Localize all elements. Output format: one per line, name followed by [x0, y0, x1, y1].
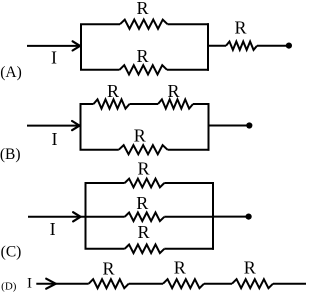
wire: lead before arrowhead (D) [36, 283, 88, 285]
resistor R1 top branch (B) [94, 99, 130, 108]
wire: top-left segment (C) [85, 182, 125, 184]
node terminal dot (A) [286, 43, 292, 49]
svg-text:R: R [134, 125, 146, 145]
resistor R2 series (D) [163, 279, 204, 288]
wire: right vertical of box (B) [208, 103, 210, 151]
svg-text:R: R [136, 0, 148, 18]
wire: top-right segment (A) [168, 23, 210, 25]
wire: input lead (A) [27, 45, 80, 47]
wire: bottom-left segment (A) [80, 69, 120, 71]
wire: bottom-left segment (C) [85, 248, 125, 250]
resistor R top branch (C) [125, 179, 165, 188]
svg-text:I: I [51, 48, 57, 68]
wire: output lead (C) [213, 216, 249, 218]
node terminal dot (B) [246, 122, 252, 128]
svg-text:R: R [174, 258, 186, 278]
svg-text:R: R [102, 258, 114, 278]
wire: right vertical of box (C) [212, 182, 214, 250]
wire: input lead (B) [27, 125, 80, 127]
wire: top-middle segment (B) [130, 103, 159, 105]
wire: left vertical of parallel box (A) [80, 24, 82, 70]
wire: between R2 and R3 (D) [204, 283, 232, 285]
resistor R bottom branch (A) [120, 65, 168, 74]
wire: left vertical of box (B) [80, 104, 82, 150]
svg-text:(D): (D) [1, 280, 17, 292]
arrowhead: current direction into node (A) [73, 41, 80, 50]
wire: output lead to series resistor (A) [208, 45, 226, 47]
resistor R top branch (A) [120, 20, 168, 29]
svg-text:R: R [234, 18, 246, 38]
wire: middle-right segment (C) [164, 216, 213, 218]
resistor R series output (A) [226, 42, 257, 50]
arrowhead: current direction (D) [46, 279, 56, 289]
wire: series resistor to terminal (A) [257, 45, 289, 47]
wire: right vertical of parallel box (A) [207, 23, 209, 71]
wire: left vertical of box (C) [85, 183, 87, 249]
svg-text:I: I [27, 275, 32, 291]
wire: output lead (B) [209, 125, 250, 127]
wire: top-left segment (A) [80, 23, 120, 25]
svg-text:R: R [244, 258, 256, 278]
wire: top-left segment (B) [80, 103, 94, 105]
svg-text:(B): (B) [0, 146, 21, 163]
svg-text:R: R [136, 46, 148, 66]
resistor R bottom branch (B) [119, 145, 168, 154]
arrowhead: current direction (C) [73, 212, 80, 221]
wire: bottom-right segment (C) [164, 248, 214, 250]
wire: bottom-right segment (A) [167, 69, 209, 71]
wire: middle-left segment (C) [86, 216, 125, 218]
svg-text:(A): (A) [0, 64, 22, 81]
svg-text:R: R [137, 222, 149, 242]
wire: bottom-right segment (B) [168, 149, 210, 151]
resistor R2 top branch (B) [158, 99, 193, 108]
svg-text:R: R [167, 81, 179, 101]
wire: top-right segment (C) [164, 182, 214, 184]
svg-text:(C): (C) [1, 243, 22, 260]
wire: top-right segment (B) [193, 103, 210, 105]
svg-text:I: I [52, 129, 58, 149]
svg-text:R: R [107, 81, 119, 101]
node terminal dot (C) [246, 214, 252, 220]
svg-text:R: R [137, 159, 149, 179]
svg-text:R: R [136, 193, 148, 213]
resistor R3 series (D) [232, 279, 273, 288]
wire: bottom-left segment (B) [80, 149, 119, 151]
arrowhead: current direction into node (B) [72, 121, 79, 130]
resistor R middle branch (C) [125, 213, 165, 222]
wire: input lead (C) [28, 216, 86, 218]
resistor R1 series (D) [89, 279, 129, 288]
wire: between R1 and R2 (D) [129, 283, 163, 285]
resistor R bottom branch (C) [125, 245, 165, 254]
svg-text:I: I [50, 219, 56, 239]
wire: output lead to right edge (D) [273, 283, 306, 285]
